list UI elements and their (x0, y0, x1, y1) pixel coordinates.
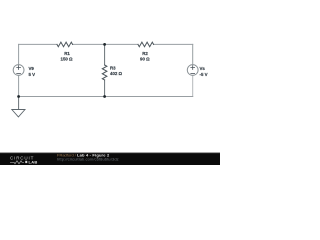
Vs plus sign (191, 66, 195, 70)
wire left vertical lower (V9 to bottom rail) (18, 75, 20, 96)
wire right vertical lower (Vs to bottom rail) (192, 75, 194, 96)
svg-text:-5 V: -5 V (200, 72, 208, 77)
wire top-right segment (154, 43, 193, 45)
resistor R2 (138, 42, 154, 47)
svg-text:150 Ω: 150 Ω (61, 56, 74, 61)
voltage source Vs (circle) (187, 65, 198, 76)
canvas background (0, 0, 220, 165)
logo wire zigzag (10, 161, 24, 164)
wire top-middle segment (73, 43, 138, 45)
V9 plus sign (17, 66, 21, 70)
wire middle vertical upper (R3 top lead) (104, 44, 106, 65)
wire middle vertical lower (R3 bottom lead) (104, 80, 106, 97)
voltage source V9 (circle) (13, 65, 24, 76)
resistor R1 (57, 42, 73, 47)
V9 minus sign (17, 73, 21, 75)
svg-text:LAB: LAB (29, 160, 38, 165)
wire bottom rail (19, 96, 193, 98)
resistor R3 (vertical) (102, 65, 107, 80)
svg-text:5 V: 5 V (29, 72, 36, 77)
wire top-left segment (node A: top rail) (19, 43, 57, 45)
node junction top middle (103, 43, 106, 46)
svg-text:http://circuitlab.com/c6f8u6tu: http://circuitlab.com/c6f8u6tur3dz (57, 157, 119, 162)
node junction bottom left (ground node) (17, 95, 20, 98)
svg-text:90 Ω: 90 Ω (140, 56, 150, 61)
footer bar (0, 153, 220, 166)
svg-text:R3: R3 (110, 65, 116, 70)
svg-text:R2: R2 (142, 51, 148, 56)
ground (triangle) (12, 110, 25, 117)
Vs minus sign (191, 73, 195, 75)
logo battery mark (25, 161, 27, 163)
svg-text:V9: V9 (29, 66, 35, 71)
wire left vertical (V9 to top rail) (18, 44, 20, 64)
svg-text:Vs: Vs (200, 66, 206, 71)
svg-text:R1: R1 (64, 51, 70, 56)
ground (stub) (18, 97, 20, 110)
node junction bottom middle (103, 95, 106, 98)
svg-text:402 Ω: 402 Ω (110, 71, 123, 76)
wire right vertical (Vs to top rail) (192, 44, 194, 64)
